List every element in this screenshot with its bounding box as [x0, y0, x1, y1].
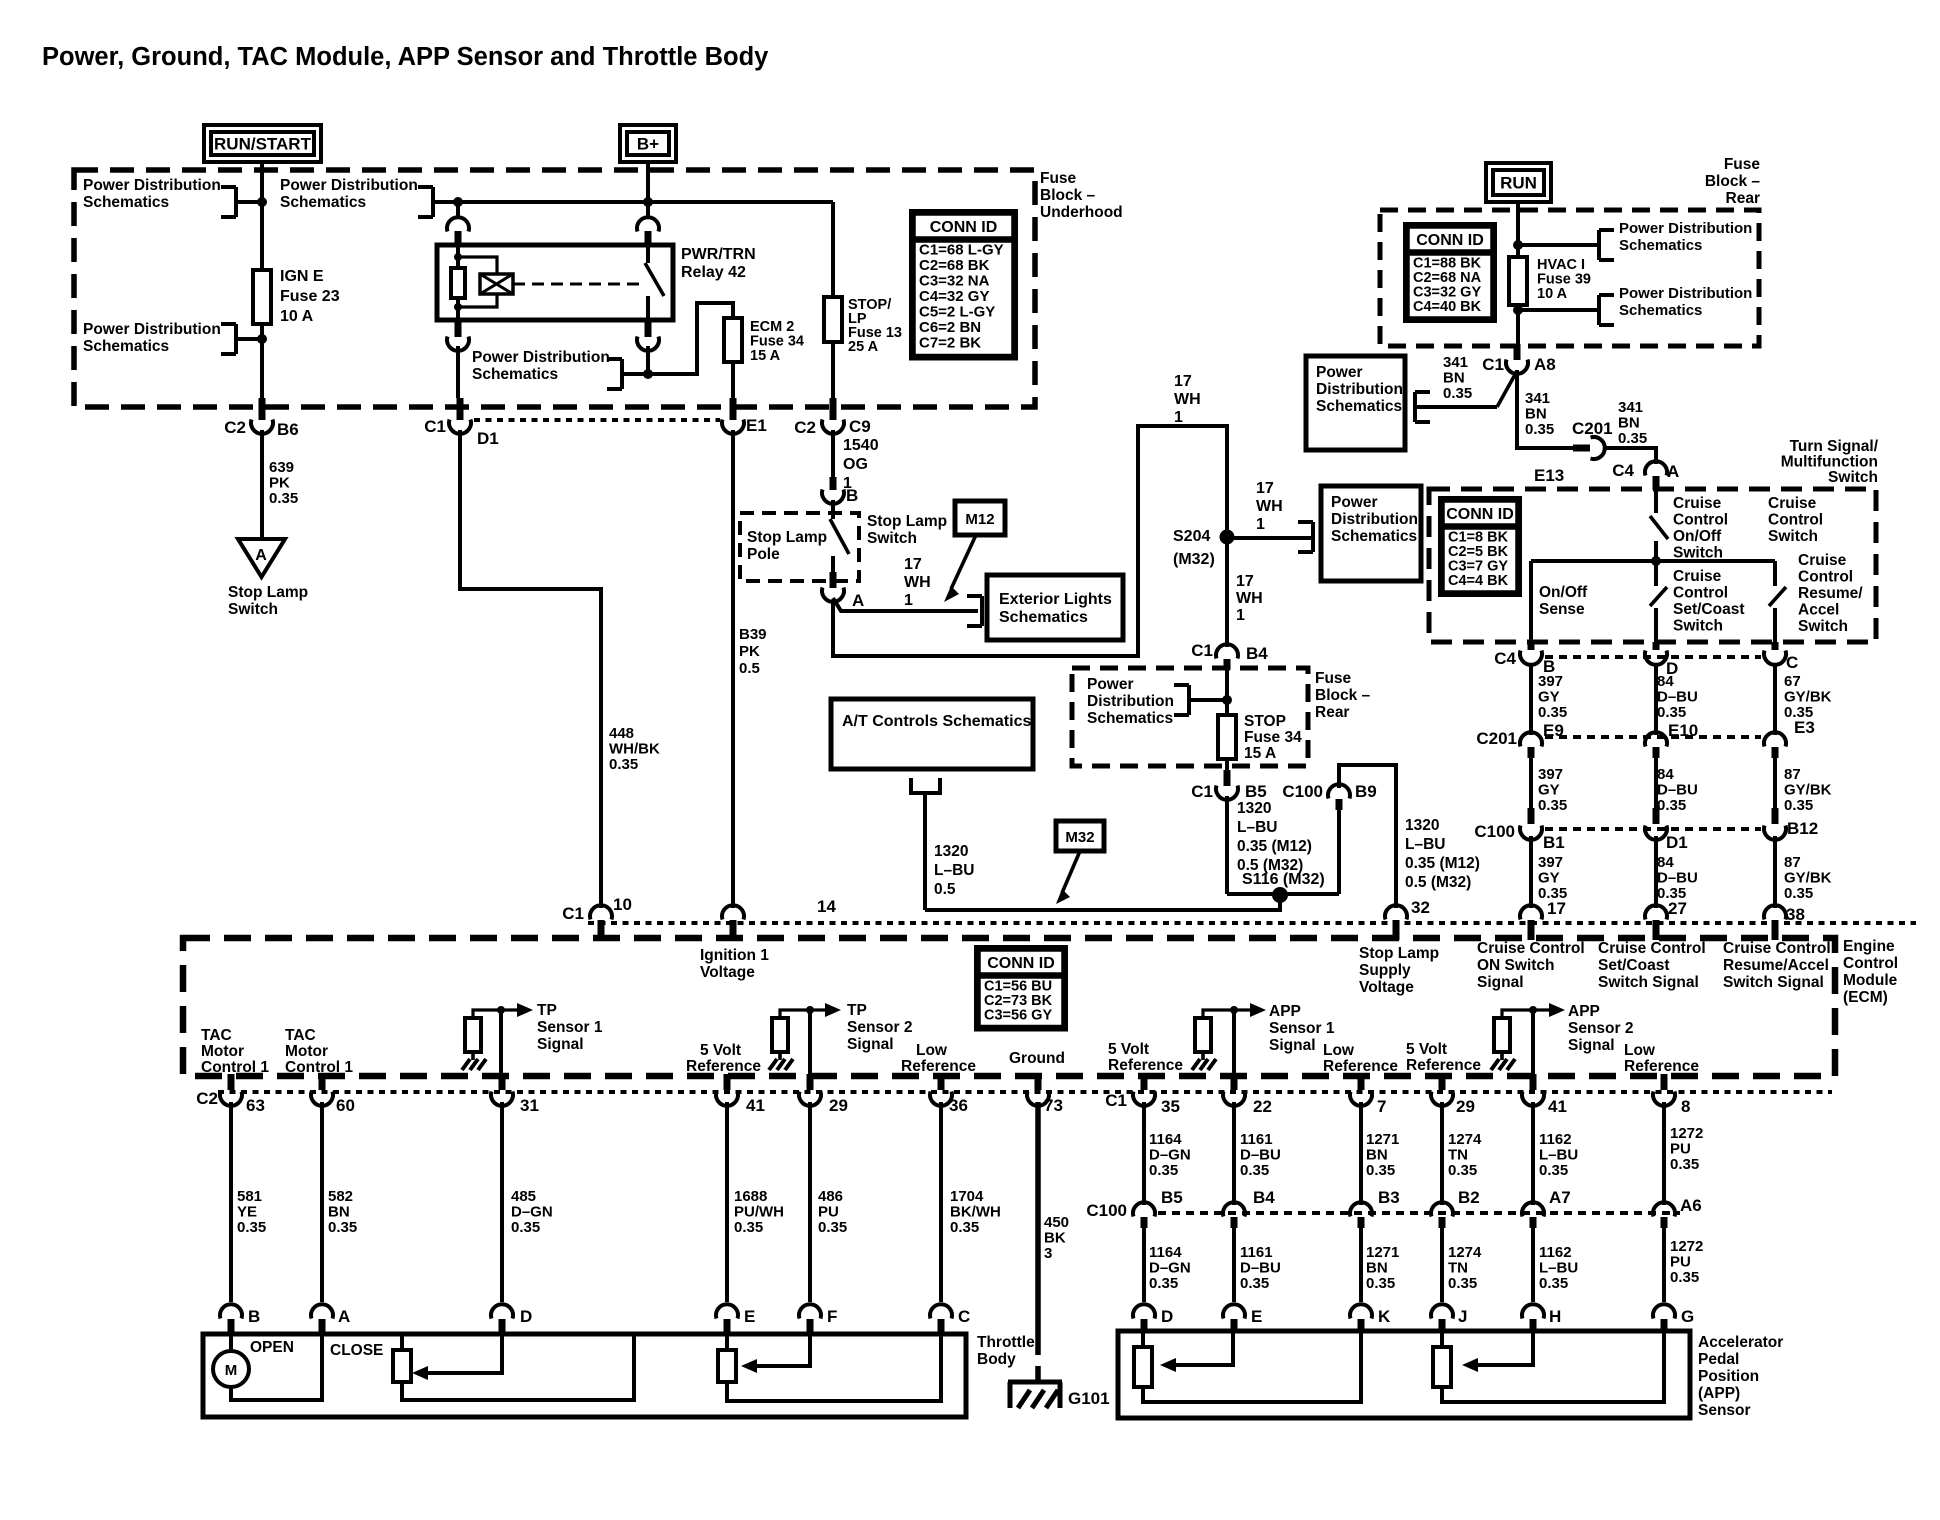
svg-text:G: G — [1681, 1307, 1694, 1326]
svg-text:TAC: TAC — [201, 1027, 232, 1044]
connector row ECM bottom right — [1141, 1074, 1148, 1090]
svg-text:S116 (M32): S116 (M32) — [1242, 871, 1325, 888]
svg-text:C: C — [958, 1307, 970, 1326]
svg-text:Control: Control — [1768, 512, 1823, 529]
svg-text:BN: BN — [1443, 370, 1465, 387]
throttle TP2 potentiometer — [718, 1350, 736, 1382]
svg-text:1704: 1704 — [950, 1188, 984, 1205]
svg-text:WH: WH — [1174, 391, 1201, 408]
svg-text:581: 581 — [237, 1188, 262, 1205]
svg-text:A6: A6 — [1680, 1196, 1702, 1215]
svg-text:Switch: Switch — [228, 601, 278, 618]
svg-text:Pole: Pole — [747, 546, 780, 563]
node junction cruise bus — [1651, 556, 1661, 566]
throttle body box — [203, 1334, 966, 1417]
svg-text:C4=4 BK: C4=4 BK — [1448, 573, 1509, 589]
svg-text:Distribution: Distribution — [1087, 693, 1174, 710]
svg-text:WH/BK: WH/BK — [609, 741, 660, 758]
svg-text:M12: M12 — [965, 511, 994, 528]
svg-text:582: 582 — [328, 1188, 353, 1205]
node junction B+ branch — [643, 197, 653, 207]
svg-text:Switch: Switch — [867, 530, 917, 547]
wire B+ drop — [646, 162, 650, 202]
svg-text:OPEN: OPEN — [250, 1339, 294, 1356]
svg-text:GY: GY — [1538, 782, 1560, 799]
svg-text:0.35: 0.35 — [1657, 704, 1686, 721]
connector ECM pin 10 — [590, 905, 612, 919]
fuse STOP/LP Fuse 13 25A — [824, 297, 842, 342]
svg-text:Cruise Control: Cruise Control — [1598, 940, 1706, 957]
cruise on/off switch — [1654, 490, 1658, 513]
svg-text:0.35: 0.35 — [511, 1219, 540, 1236]
svg-text:TN: TN — [1448, 1147, 1468, 1164]
wire B5 to S116 — [1225, 796, 1229, 894]
svg-text:BN: BN — [1366, 1147, 1388, 1164]
svg-text:C100: C100 — [1086, 1201, 1127, 1220]
svg-text:Supply: Supply — [1359, 962, 1411, 979]
svg-text:L–BU: L–BU — [934, 862, 974, 879]
TP sensor 1 pullup resistor — [465, 1018, 481, 1052]
svg-text:1320: 1320 — [1405, 817, 1439, 834]
svg-text:1: 1 — [1174, 409, 1183, 426]
svg-text:C: C — [1786, 653, 1798, 672]
node junction stop fuse — [1222, 695, 1232, 705]
svg-text:Voltage: Voltage — [700, 964, 755, 981]
svg-text:Ground: Ground — [1009, 1050, 1065, 1067]
svg-text:Schematics: Schematics — [280, 194, 366, 211]
conn id table turn signal — [1440, 498, 1520, 595]
right wires C100 to APP — [1142, 1228, 1146, 1302]
box A/T Controls Schematics — [831, 699, 1033, 769]
svg-text:67: 67 — [1784, 673, 1801, 690]
wire top horizontal bus — [433, 200, 833, 204]
connector ECM pin 14 — [722, 905, 744, 919]
svg-text:0.35: 0.35 — [237, 1219, 266, 1236]
svg-text:Schematics: Schematics — [999, 609, 1088, 626]
node junction 1 — [257, 197, 267, 207]
svg-text:C201: C201 — [1476, 729, 1517, 748]
svg-text:0.35: 0.35 — [1657, 797, 1686, 814]
svg-text:E10: E10 — [1668, 721, 1698, 740]
connector relay switch bottom — [645, 320, 652, 337]
svg-text:On/Off: On/Off — [1539, 584, 1588, 601]
wire B4 connector — [1216, 644, 1238, 658]
svg-text:C3=56 GY: C3=56 GY — [984, 1008, 1052, 1024]
node S116 splice — [1272, 887, 1288, 903]
svg-text:WH: WH — [904, 574, 931, 591]
svg-text:0.35: 0.35 — [1366, 1162, 1395, 1179]
svg-text:1540: 1540 — [843, 437, 879, 454]
svg-text:B3: B3 — [1378, 1188, 1400, 1207]
box Exterior Lights Schematics — [987, 575, 1123, 640]
wire B39 PK to ECM pin 14 — [731, 430, 735, 908]
svg-text:1271: 1271 — [1366, 1244, 1399, 1261]
svg-text:0.35: 0.35 — [1539, 1162, 1568, 1179]
svg-text:D–BU: D–BU — [1657, 689, 1698, 706]
svg-text:Power Distribution: Power Distribution — [280, 177, 418, 194]
svg-text:Switch: Switch — [1828, 469, 1878, 486]
svg-text:1320: 1320 — [1237, 800, 1271, 817]
svg-text:D1: D1 — [477, 429, 499, 448]
svg-text:PU: PU — [818, 1204, 839, 1221]
svg-text:Power Distribution: Power Distribution — [472, 349, 610, 366]
relay dashed link — [513, 283, 640, 286]
svg-text:32: 32 — [1411, 898, 1430, 917]
svg-text:PK: PK — [739, 643, 760, 660]
TP sensor 2 pullup resistor — [772, 1018, 788, 1052]
svg-text:Control 1: Control 1 — [285, 1059, 353, 1076]
throttle motor M — [229, 1334, 233, 1351]
wire stop lamp out down loop — [833, 426, 1227, 656]
svg-text:639: 639 — [269, 459, 294, 476]
svg-text:Turn Signal/: Turn Signal/ — [1790, 438, 1879, 455]
svg-text:0.35: 0.35 — [734, 1219, 763, 1236]
svg-text:Reference: Reference — [686, 1058, 761, 1075]
ground G101 symbol — [1008, 1380, 1062, 1385]
svg-text:Throttle: Throttle — [977, 1334, 1035, 1351]
svg-text:Low: Low — [916, 1042, 948, 1059]
connector row C100 B1 D1 B12 — [1528, 808, 1535, 824]
wire 1540 OG — [831, 430, 835, 477]
svg-text:36: 36 — [949, 1096, 968, 1115]
svg-text:Schematics: Schematics — [1316, 398, 1402, 415]
relay switch — [646, 245, 650, 263]
svg-text:C2: C2 — [196, 1089, 218, 1108]
svg-text:BK/WH: BK/WH — [950, 1204, 1001, 1221]
svg-text:Reference: Reference — [1108, 1057, 1183, 1074]
svg-text:Motor: Motor — [201, 1043, 244, 1060]
fuse STOP Fuse 34 15A — [1218, 715, 1236, 759]
stop lamp switch blade — [831, 500, 835, 519]
svg-text:Block –: Block – — [1315, 687, 1371, 704]
bracket 3 — [418, 185, 433, 189]
fuse block underhood dashed box — [74, 170, 1035, 407]
APP sensor box — [1118, 1331, 1690, 1418]
svg-text:29: 29 — [829, 1096, 848, 1115]
svg-text:Set/Coast: Set/Coast — [1673, 601, 1745, 618]
svg-text:WH: WH — [1256, 498, 1283, 515]
wire below HVAC fuse — [1516, 305, 1520, 346]
svg-text:A8: A8 — [1534, 355, 1556, 374]
svg-text:0.35: 0.35 — [1539, 1275, 1568, 1292]
wire 1688 PU/WH — [725, 1102, 729, 1302]
svg-text:Sensor: Sensor — [1698, 1402, 1751, 1419]
svg-text:17: 17 — [1256, 480, 1274, 497]
connector C1 B5 — [1225, 759, 1229, 770]
svg-text:(M32): (M32) — [1173, 551, 1215, 568]
connector ECM pin 32 — [1385, 905, 1407, 919]
connector A stop lamp — [830, 572, 837, 588]
terminal RUN/START — [204, 125, 321, 162]
svg-text:Power: Power — [1331, 494, 1378, 511]
svg-text:APP: APP — [1568, 1003, 1600, 1020]
wire C201 to C4 A — [1603, 448, 1656, 464]
wires row3 — [1529, 836, 1533, 908]
wire on/off sense drop — [1529, 561, 1533, 644]
svg-text:1161: 1161 — [1240, 1131, 1273, 1148]
connector C2 C9 — [830, 398, 837, 420]
svg-text:C6=2 BN: C6=2 BN — [919, 319, 981, 336]
svg-text:0.35: 0.35 — [1240, 1275, 1269, 1292]
ECM dotted pin row bottom — [218, 1090, 1832, 1094]
wire 582 BN — [320, 1102, 324, 1302]
wire stop lamp out right — [833, 598, 978, 611]
right wires C1 to C100 — [1142, 1102, 1146, 1205]
svg-text:Sensor 1: Sensor 1 — [1269, 1020, 1335, 1037]
svg-text:0.5: 0.5 — [934, 881, 956, 898]
wire into stop fuse — [1225, 670, 1229, 715]
svg-text:CLOSE: CLOSE — [330, 1342, 383, 1359]
wire C1 D1 to ECM pin 10 — [457, 398, 464, 420]
svg-text:Control: Control — [1673, 512, 1728, 529]
svg-text:Sense: Sense — [1539, 601, 1585, 618]
svg-text:Switch Signal: Switch Signal — [1723, 974, 1824, 991]
svg-text:Signal: Signal — [1477, 974, 1524, 991]
svg-text:1164: 1164 — [1149, 1131, 1182, 1148]
svg-text:485: 485 — [511, 1188, 536, 1205]
node junction HVAC bottom — [1513, 305, 1523, 315]
relay PWR/TRN Relay 42 box — [437, 245, 673, 320]
svg-text:0.35 (M12): 0.35 (M12) — [1405, 855, 1480, 872]
svg-text:C9: C9 — [849, 417, 871, 436]
svg-text:E: E — [744, 1307, 755, 1326]
svg-text:0.35: 0.35 — [269, 490, 298, 507]
svg-text:B9: B9 — [1355, 782, 1377, 801]
ECM dotted pin row top — [588, 921, 1916, 925]
svg-text:D–BU: D–BU — [1657, 870, 1698, 887]
svg-text:Control: Control — [1798, 569, 1853, 586]
svg-text:0.35: 0.35 — [1149, 1275, 1178, 1292]
fuse IGN E Fuse 23 10A — [253, 270, 271, 324]
svg-text:17: 17 — [1174, 373, 1192, 390]
svg-text:0.35: 0.35 — [818, 1219, 847, 1236]
svg-text:Pedal: Pedal — [1698, 1351, 1739, 1368]
svg-text:BK: BK — [1044, 1230, 1066, 1247]
box Power Distribution Schematics mid — [1321, 486, 1421, 581]
svg-text:60: 60 — [336, 1096, 355, 1115]
svg-text:25 A: 25 A — [848, 339, 879, 355]
wire STOP/LP branch — [831, 202, 835, 297]
svg-text:Signal: Signal — [1568, 1037, 1615, 1054]
fuse block rear stop dashed box — [1072, 668, 1308, 766]
svg-text:Power Distribution: Power Distribution — [1619, 285, 1752, 302]
svg-text:A: A — [1667, 462, 1679, 481]
svg-text:17: 17 — [904, 556, 922, 573]
svg-text:STOP: STOP — [1244, 713, 1286, 730]
svg-text:0.35: 0.35 — [1670, 1156, 1699, 1173]
svg-text:Voltage: Voltage — [1359, 979, 1414, 996]
svg-text:Stop Lamp: Stop Lamp — [867, 513, 947, 530]
svg-text:M: M — [225, 1362, 238, 1379]
svg-text:D–GN: D–GN — [1149, 1260, 1191, 1277]
svg-text:Schematics: Schematics — [83, 194, 169, 211]
svg-text:0.35: 0.35 — [609, 756, 638, 773]
svg-text:31: 31 — [520, 1096, 539, 1115]
svg-text:Set/Coast: Set/Coast — [1598, 957, 1670, 974]
svg-text:A: A — [852, 591, 864, 610]
box Power Distribution Schematics upper — [1306, 356, 1405, 450]
svg-text:15 A: 15 A — [750, 348, 781, 364]
svg-text:87: 87 — [1784, 854, 1801, 871]
svg-text:Signal: Signal — [537, 1036, 584, 1053]
svg-text:22: 22 — [1253, 1097, 1272, 1116]
svg-text:C2: C2 — [224, 418, 246, 437]
svg-text:0.35: 0.35 — [1538, 704, 1567, 721]
connector relay coil bottom — [455, 320, 462, 337]
svg-text:0.5 (M32): 0.5 (M32) — [1405, 874, 1471, 891]
svg-text:L–BU: L–BU — [1539, 1147, 1578, 1164]
svg-text:29: 29 — [1456, 1097, 1475, 1116]
svg-text:397: 397 — [1538, 766, 1563, 783]
callout M12 — [955, 501, 1005, 535]
wire A/T to M32 run — [923, 793, 927, 910]
svg-text:D1: D1 — [1666, 833, 1688, 852]
svg-text:C1: C1 — [562, 904, 584, 923]
wire 581 YE — [229, 1102, 233, 1302]
svg-text:TP: TP — [847, 1002, 867, 1019]
wire S116 to M32 run — [925, 898, 1280, 910]
svg-text:C201: C201 — [1572, 419, 1613, 438]
svg-text:Control: Control — [1673, 585, 1728, 602]
svg-text:Reference: Reference — [1406, 1057, 1481, 1074]
svg-text:Power Distribution: Power Distribution — [83, 321, 221, 338]
bracket 4 — [607, 357, 622, 361]
APP pot 2 — [1433, 1347, 1451, 1387]
svg-text:YE: YE — [237, 1204, 257, 1221]
svg-text:Cruise: Cruise — [1673, 568, 1722, 585]
svg-text:1164: 1164 — [1149, 1244, 1182, 1261]
svg-text:84: 84 — [1657, 673, 1674, 690]
svg-text:1271: 1271 — [1366, 1131, 1399, 1148]
svg-text:C4=40 BK: C4=40 BK — [1413, 299, 1482, 315]
svg-text:PU/WH: PU/WH — [734, 1204, 784, 1221]
svg-text:Position: Position — [1698, 1368, 1759, 1385]
svg-text:84: 84 — [1657, 854, 1674, 871]
stop lamp switch off-page triangle A — [238, 539, 285, 577]
svg-text:1274: 1274 — [1448, 1244, 1482, 1261]
svg-text:15 A: 15 A — [1244, 745, 1276, 762]
svg-text:L–BU: L–BU — [1539, 1260, 1578, 1277]
svg-text:5 Volt: 5 Volt — [1108, 1041, 1149, 1058]
bracket 341 BN — [1415, 390, 1430, 394]
svg-text:397: 397 — [1538, 854, 1563, 871]
svg-text:B12: B12 — [1787, 819, 1818, 838]
svg-text:APP: APP — [1269, 1003, 1301, 1020]
svg-text:GY: GY — [1538, 689, 1560, 706]
svg-text:D–GN: D–GN — [1149, 1147, 1191, 1164]
svg-text:C1: C1 — [1191, 782, 1213, 801]
svg-text:C100: C100 — [1282, 782, 1323, 801]
svg-text:B5: B5 — [1161, 1188, 1183, 1207]
svg-text:1161: 1161 — [1240, 1244, 1273, 1261]
wire APP2 signal — [1531, 1010, 1535, 1078]
svg-text:On/Off: On/Off — [1673, 528, 1722, 545]
svg-text:D: D — [1161, 1307, 1173, 1326]
svg-text:Low: Low — [1624, 1042, 1656, 1059]
svg-text:C3=32 NA: C3=32 NA — [919, 273, 990, 290]
svg-text:0.35 (M12): 0.35 (M12) — [1237, 838, 1312, 855]
svg-text:Rear: Rear — [1315, 704, 1349, 721]
svg-text:Exterior Lights: Exterior Lights — [999, 591, 1112, 608]
svg-text:C4: C4 — [1494, 649, 1516, 668]
wire TP1 signal — [499, 1010, 503, 1078]
svg-text:Switch: Switch — [1768, 528, 1818, 545]
svg-text:Fuse 34: Fuse 34 — [1244, 729, 1302, 746]
svg-text:Accel: Accel — [1798, 602, 1839, 619]
svg-text:Reference: Reference — [1323, 1058, 1398, 1075]
wire RUN/START vertical — [260, 162, 264, 270]
svg-text:Schematics: Schematics — [1087, 710, 1173, 727]
svg-text:B: B — [846, 486, 858, 505]
node junction relay branch — [453, 197, 463, 207]
svg-text:486: 486 — [818, 1188, 843, 1205]
wire RUN drop — [1516, 202, 1520, 257]
connector row C201 E9 E10 E3 — [1520, 732, 1542, 746]
connector relay coil top — [456, 202, 460, 218]
svg-text:GY: GY — [1538, 870, 1560, 887]
svg-text:TAC: TAC — [285, 1027, 316, 1044]
svg-text:1162: 1162 — [1539, 1244, 1572, 1261]
fuse block rear top dashed box — [1380, 210, 1759, 346]
node junction HVAC top — [1513, 240, 1523, 250]
svg-text:TN: TN — [1448, 1260, 1468, 1277]
wires row1 — [1529, 664, 1533, 735]
callout M32 — [1056, 821, 1104, 851]
svg-text:C5=2 L-GY: C5=2 L-GY — [919, 304, 995, 321]
svg-text:B4: B4 — [1253, 1188, 1275, 1207]
connector relay switch top — [646, 202, 650, 218]
svg-text:E13: E13 — [1534, 466, 1564, 485]
svg-text:Stop Lamp: Stop Lamp — [1359, 945, 1439, 962]
svg-text:0.35: 0.35 — [328, 1219, 357, 1236]
svg-text:H: H — [1549, 1307, 1561, 1326]
bracket A/T — [909, 778, 913, 793]
bracket 1 — [221, 185, 236, 189]
svg-text:0.5: 0.5 — [739, 660, 760, 677]
svg-text:C4=32 GY: C4=32 GY — [919, 288, 989, 305]
relay coil — [456, 245, 460, 268]
svg-text:1320: 1320 — [934, 843, 968, 860]
wire below fuse — [260, 324, 264, 400]
bracket 2 — [221, 322, 236, 326]
wire 485 D-GN — [500, 1102, 504, 1302]
svg-text:7: 7 — [1377, 1097, 1386, 1116]
svg-text:Power Distribution: Power Distribution — [83, 177, 221, 194]
wire S204 to bracket — [1227, 536, 1313, 540]
svg-text:RUN: RUN — [1500, 174, 1537, 193]
svg-text:B4: B4 — [1246, 644, 1268, 663]
svg-text:Signal: Signal — [847, 1036, 894, 1053]
relay solenoid box-X — [480, 274, 513, 294]
wire 486 PU — [808, 1102, 812, 1302]
conn id table underhood — [911, 211, 1016, 359]
svg-text:Body: Body — [977, 1351, 1016, 1368]
node junction ECM2 feed — [643, 369, 653, 379]
wire S204 vertical — [1225, 440, 1229, 647]
svg-text:Power: Power — [1316, 364, 1363, 381]
svg-text:CONN ID: CONN ID — [1416, 232, 1484, 249]
svg-text:Distribution: Distribution — [1316, 381, 1403, 398]
svg-text:1: 1 — [1256, 516, 1265, 533]
connector C2 B6 — [259, 398, 266, 420]
svg-text:Module: Module — [1843, 972, 1898, 989]
svg-text:G101: G101 — [1068, 1389, 1110, 1408]
svg-text:0.35: 0.35 — [1670, 1269, 1699, 1286]
connector B stop lamp — [830, 477, 837, 490]
svg-text:A: A — [338, 1307, 350, 1326]
svg-text:Control 1: Control 1 — [201, 1059, 269, 1076]
svg-text:A: A — [255, 547, 267, 564]
